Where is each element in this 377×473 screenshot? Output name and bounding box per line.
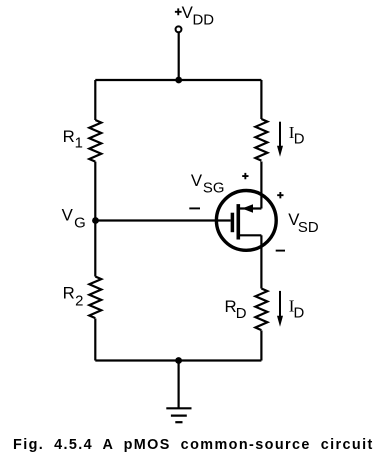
svg-text:Fig. 4.5.4 A pMOS common-sourc: Fig. 4.5.4 A pMOS common-source circuit bbox=[13, 437, 374, 453]
svg-text:DD: DD bbox=[193, 12, 215, 28]
svg-text:G: G bbox=[74, 216, 86, 232]
svg-text:SG: SG bbox=[203, 181, 225, 197]
svg-text:R: R bbox=[63, 283, 75, 302]
svg-text:V: V bbox=[191, 171, 203, 190]
svg-text:2: 2 bbox=[75, 294, 83, 310]
svg-text:R: R bbox=[63, 127, 75, 146]
svg-text:1: 1 bbox=[75, 136, 83, 152]
svg-text:D: D bbox=[294, 306, 305, 322]
svg-text:D: D bbox=[294, 131, 305, 147]
svg-text:SD: SD bbox=[298, 220, 319, 236]
svg-text:V: V bbox=[62, 206, 74, 225]
svg-text:D: D bbox=[236, 306, 247, 322]
